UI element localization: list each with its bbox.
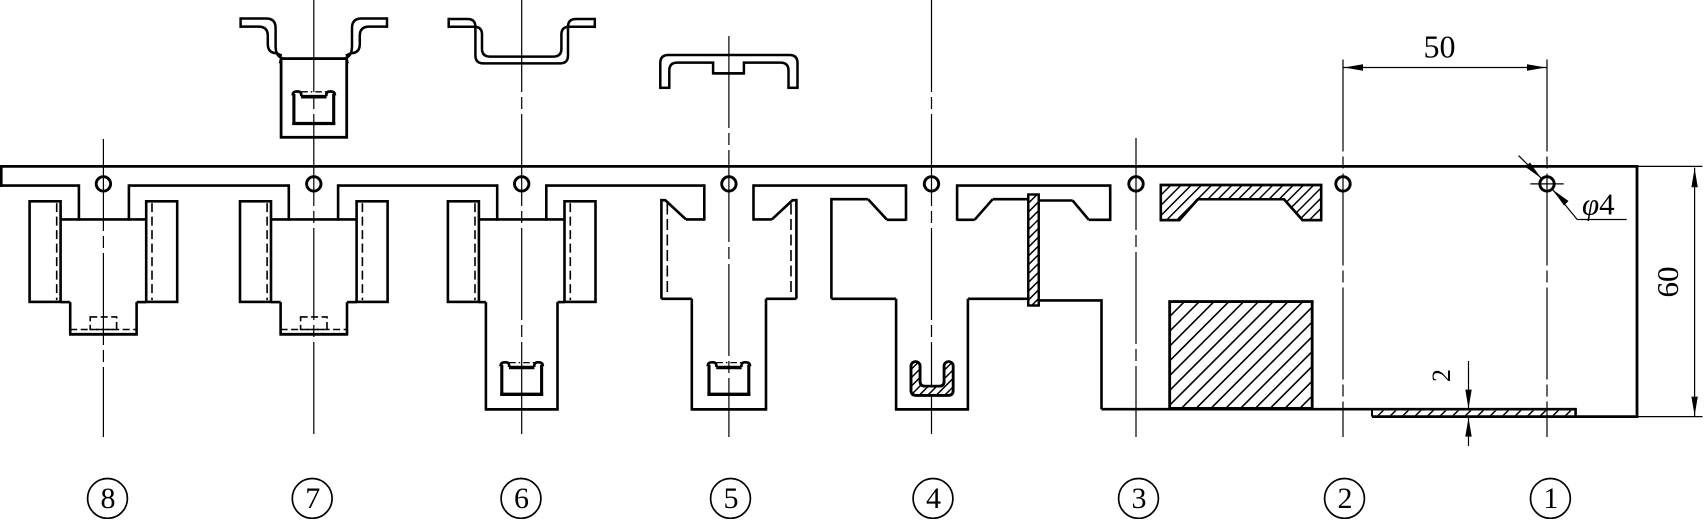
station 8 hidden line across tongue (dashed) — [70, 329, 136, 331]
cup rim middle line — [301, 95, 326, 99]
leader line for hole diameter — [1519, 156, 1542, 179]
station 5 dashed bend lines — [666, 204, 668, 297]
station 7 tongue bottom edge — [279, 333, 348, 336]
station 7 upper view: left wing — [241, 19, 282, 64]
left flange rectangle — [240, 201, 271, 302]
station 3 flattened-blank section (hatched hat) — [1161, 185, 1321, 220]
station 4 body left edge — [830, 198, 833, 299]
station 6 tongue sides — [485, 302, 488, 409]
station balloon 5 — [711, 479, 751, 519]
dimension 2 (sheet thickness) — [1468, 361, 1470, 409]
station 4 top chamfers — [868, 199, 887, 220]
station 6 tongue bottom edge — [485, 408, 559, 411]
svg-text:1: 1 — [1543, 482, 1558, 515]
station 6 body top edge — [479, 218, 565, 221]
svg-text:5: 5 — [724, 482, 739, 515]
station 7 step at body bottom — [271, 301, 281, 304]
pilot hole at station x=932 — [924, 177, 938, 191]
strip band bottom edge segments — [1, 184, 79, 187]
station balloon 1 — [1531, 479, 1571, 519]
left flange rectangle — [448, 201, 479, 302]
svg-text:2: 2 — [1338, 482, 1353, 515]
carrier tab edges — [287, 184, 290, 220]
centerline x=1343 — [1342, 60, 1344, 438]
right flange rectangle — [357, 201, 388, 302]
cup right wall — [747, 365, 750, 396]
step after bar to lower bottom edge — [1039, 299, 1102, 302]
carrier tab edges — [78, 184, 81, 220]
right bend line (dashed) — [361, 203, 363, 300]
station balloon 3 — [1119, 479, 1159, 519]
station 4 step at body bottom — [831, 297, 896, 300]
station balloon 6 — [501, 479, 541, 519]
pilot hole at station x=522 — [515, 177, 529, 191]
cup centre mark (dashed) — [301, 91, 326, 93]
centerline x=103 — [102, 139, 104, 437]
svg-text:6: 6 — [514, 482, 529, 515]
cup centre mark (dashed) — [716, 362, 741, 364]
cup rim right ear — [534, 362, 543, 367]
pilot hole at station x=729 — [722, 177, 736, 191]
centerline x=1136 — [1135, 138, 1137, 437]
carrier tab edges — [496, 184, 499, 220]
station 5 body right edge — [795, 199, 798, 299]
svg-text:φ4: φ4 — [1582, 187, 1615, 222]
blanked-out opening (hatched rectangle) — [1170, 302, 1313, 409]
bottom edge right portion — [1372, 415, 1638, 418]
carrier tab edges — [905, 184, 908, 220]
cup bottom — [292, 122, 335, 125]
station 7 tongue sides — [279, 302, 282, 334]
left flange rectangle — [30, 201, 61, 302]
centerline x=1547 — [1546, 60, 1548, 438]
strip top edge — [1, 165, 1638, 168]
left bend line (dashed) — [474, 203, 476, 300]
station 8 step at body bottom — [61, 301, 71, 304]
station 5 body left edge — [660, 199, 663, 299]
cup left wall — [707, 365, 710, 396]
station 4 tongue bottom edge — [895, 408, 969, 411]
right flange rectangle — [565, 201, 596, 302]
pilot hole at station x=314 — [307, 177, 321, 191]
station 5 upper view: leg bottom caps — [659, 87, 670, 90]
cup rim left ear — [293, 92, 302, 97]
station 8 tongue sides — [69, 302, 72, 334]
cup right wall — [332, 94, 335, 125]
station balloon 7 — [292, 479, 332, 519]
pilot hole at station x=1343 — [1336, 177, 1350, 191]
centerline x=932 — [931, 0, 933, 437]
station 5 top chamfers — [666, 201, 686, 220]
cup left wall — [292, 94, 295, 125]
hatched section bar of bent flange (between st4 and st3) — [1028, 195, 1038, 306]
svg-text:60: 60 — [1650, 267, 1685, 298]
station 5 upper view: tab bottom — [713, 72, 744, 75]
station 7 hidden line across tongue (dashed) — [281, 329, 347, 331]
left bend line (dashed) — [56, 203, 58, 300]
cup rim left ear — [708, 362, 717, 367]
bottom edge extension (thin, to 60-dim) — [1638, 416, 1702, 418]
scrap web contour between station 4 and 3 — [1039, 199, 1073, 202]
station balloon 4 — [913, 479, 953, 519]
cup rim middle line — [716, 366, 741, 370]
svg-text:3: 3 — [1132, 482, 1147, 515]
sheet section right cap — [1574, 408, 1577, 417]
centerline x=729 — [728, 36, 730, 437]
station 6 upper view: hat end caps — [447, 18, 450, 28]
svg-text:4: 4 — [926, 482, 941, 515]
station 5 body top edges beside tab — [686, 218, 704, 221]
station 5 upper view: bridge inner line — [669, 63, 788, 88]
station 5 upper view: bridge outer line — [660, 55, 797, 88]
strip right end edge — [1636, 165, 1639, 418]
cup rim right ear — [741, 362, 750, 367]
svg-text:50: 50 — [1424, 29, 1456, 65]
station 6 upper view: hat profile outer line — [449, 19, 595, 63]
station 8 body top edge — [61, 218, 147, 221]
station 7 upper view: right wing — [346, 19, 387, 64]
bottom edge middle portion — [1102, 408, 1576, 411]
cup bottom — [500, 393, 543, 396]
cup right wall — [540, 365, 543, 396]
sheet section step tick — [1371, 409, 1373, 416]
station 8 tongue bottom edge — [69, 333, 138, 336]
cup rim middle line — [509, 366, 534, 370]
svg-text:8: 8 — [101, 482, 116, 515]
right bend line (dashed) — [151, 203, 153, 300]
station 5 tongue bottom edge — [691, 408, 768, 411]
right flange rectangle — [146, 201, 177, 302]
strip top edge extension (thin, to 60-dim) — [1638, 165, 1702, 167]
station 7 upper view: part body box — [281, 59, 347, 138]
station 7 hidden cup rectangle (dashed) — [301, 317, 327, 330]
station 4 top caps — [831, 198, 868, 201]
pilot hole at station x=1136 — [1129, 177, 1143, 191]
svg-text:2: 2 — [1427, 369, 1456, 382]
station 8 hidden cup rectangle (dashed) — [90, 317, 116, 330]
carrier tab edges — [703, 184, 706, 220]
pilot hole at station x=1547 — [1540, 177, 1554, 191]
station balloon 8 — [88, 479, 128, 519]
svg-text:7: 7 — [305, 482, 320, 515]
centerline x=314 — [313, 0, 315, 437]
pilot hole at station x=103 — [96, 177, 110, 191]
station 4 cup section (hatched U) — [911, 362, 953, 396]
dimension 60 line — [1694, 168, 1696, 417]
station 6 upper view: hat profile inner line — [449, 27, 595, 57]
cup rim right ear — [326, 92, 335, 97]
strip left end edge — [0, 165, 3, 187]
right bend line (dashed) — [569, 203, 571, 300]
station 5 tongue sides — [690, 299, 693, 410]
left bend line (dashed) — [266, 203, 268, 300]
cup bottom — [707, 393, 750, 396]
station 6 step at body bottom — [479, 301, 486, 304]
station 1 hole horizontal centre mark — [1530, 183, 1563, 185]
cup left wall — [500, 365, 503, 396]
cup centre mark (dashed) — [509, 362, 534, 364]
station 4 tongue sides — [895, 299, 898, 410]
station balloon 2 — [1325, 479, 1365, 519]
cup rim left ear — [501, 362, 510, 367]
station 4 body top edges beside tab — [887, 219, 906, 222]
dimension 50 line — [1343, 67, 1547, 69]
station 5 top caps — [661, 199, 666, 202]
centerline x=522 — [521, 0, 523, 437]
station 7 body top edge — [271, 218, 357, 221]
station 5 step at body bottom — [661, 297, 691, 300]
